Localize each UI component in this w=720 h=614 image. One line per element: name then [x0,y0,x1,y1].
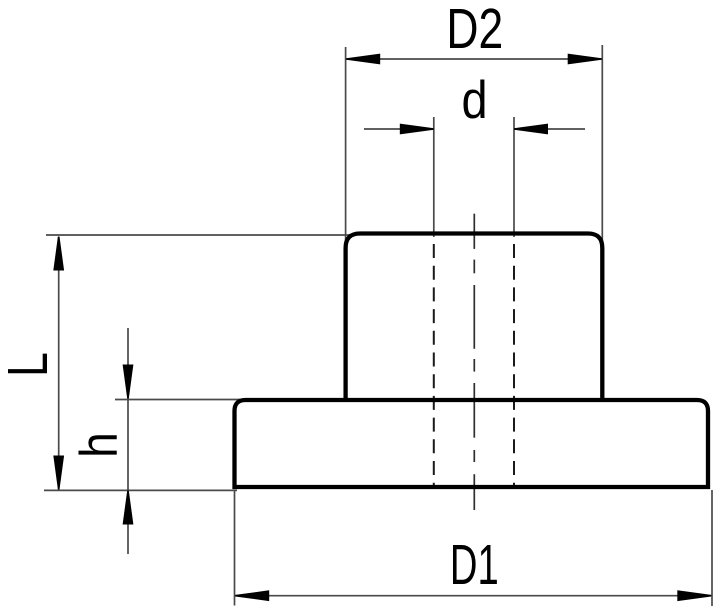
svg-text:d: d [461,70,487,129]
svg-text:D1: D1 [450,533,499,596]
svg-text:h: h [69,432,129,458]
svg-text:L: L [0,352,59,377]
svg-text:D2: D2 [446,0,503,60]
